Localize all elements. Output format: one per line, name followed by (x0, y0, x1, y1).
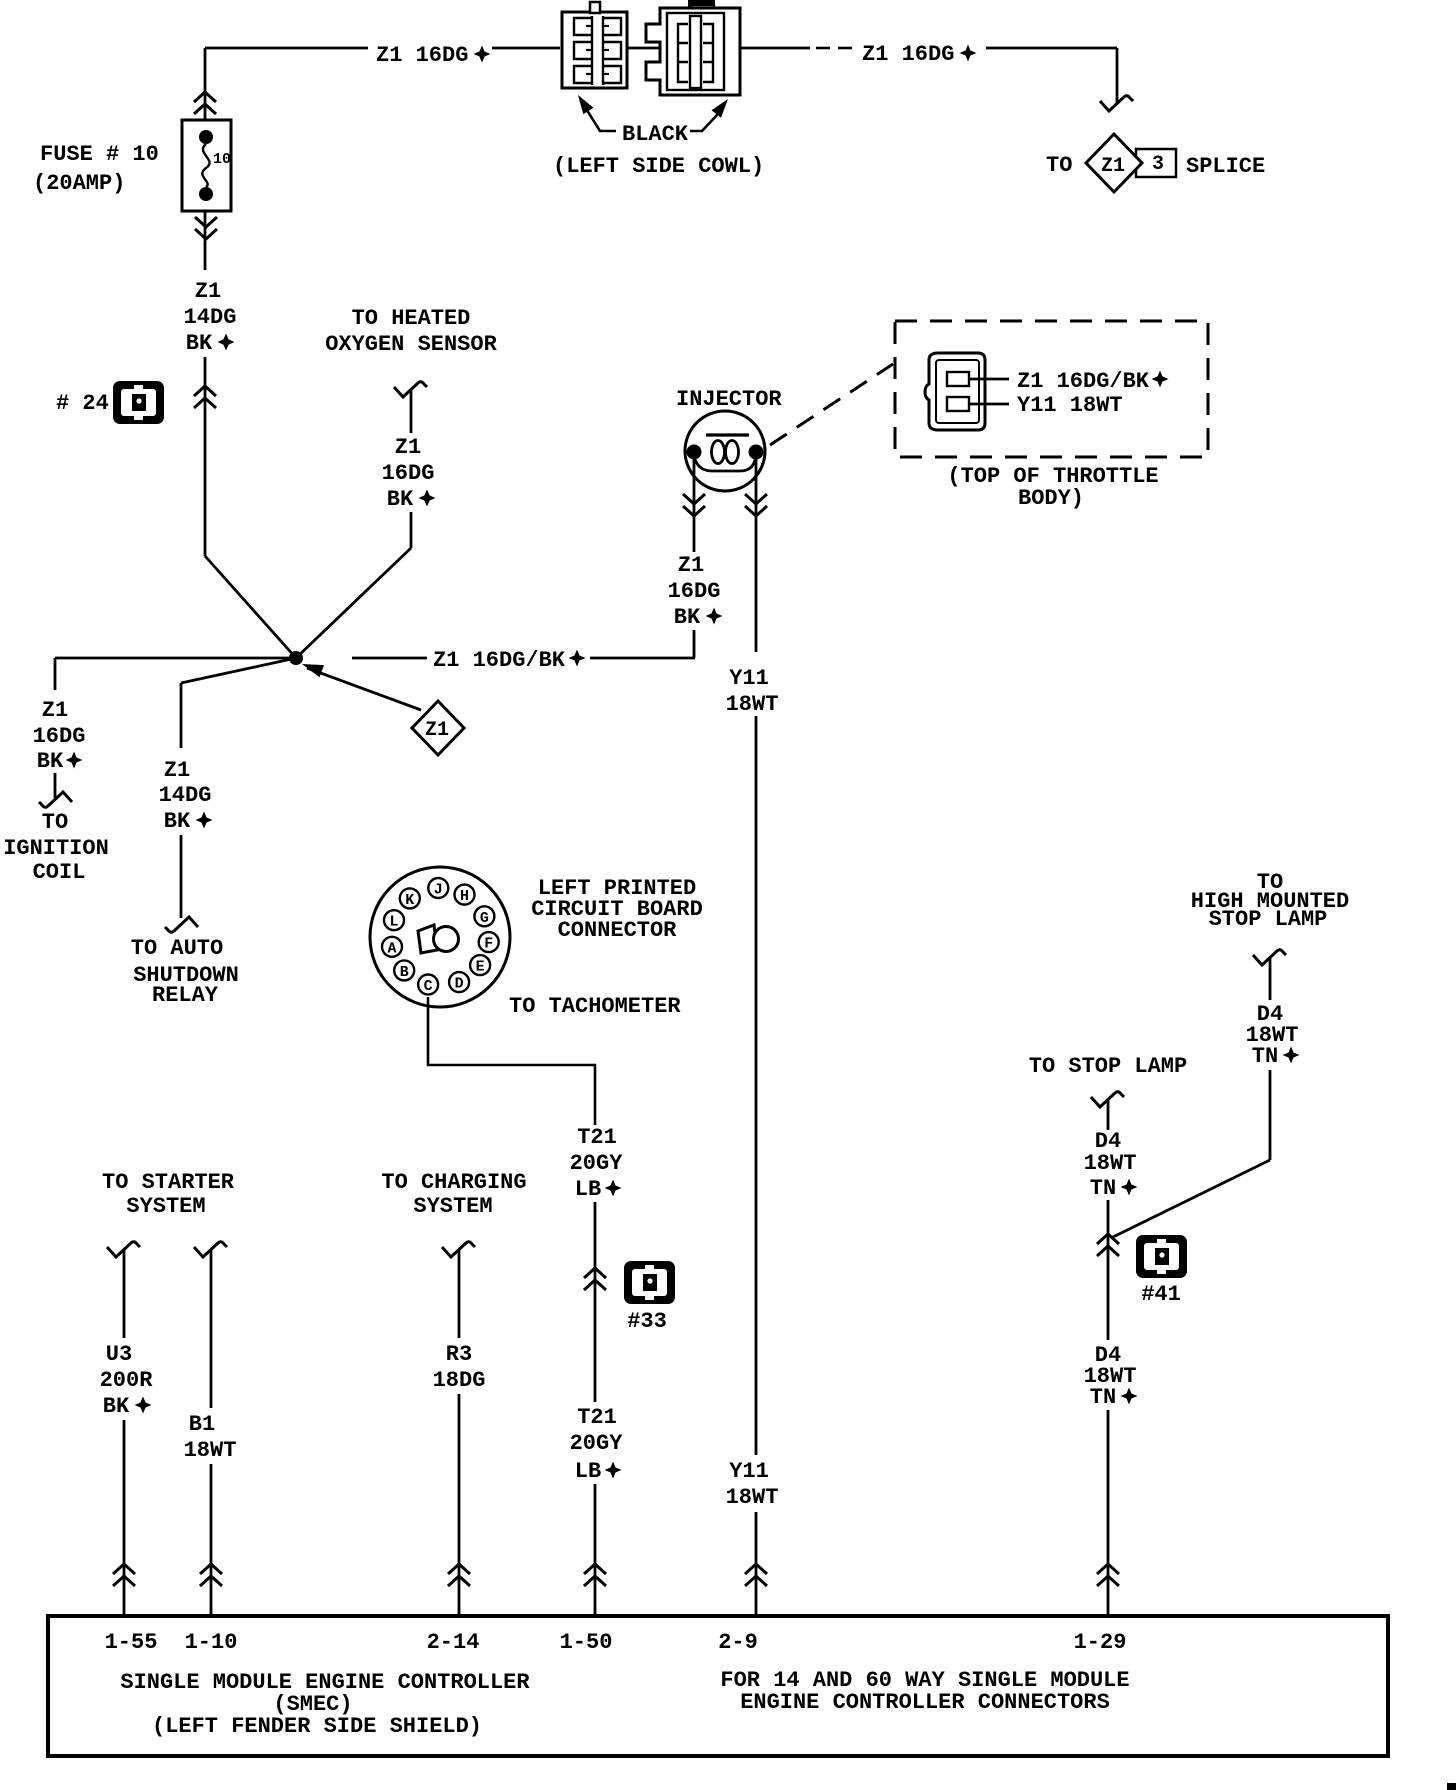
svg-text:TO AUTO: TO AUTO (131, 936, 223, 961)
svg-text:18DG: 18DG (433, 1368, 486, 1393)
svg-text:G: G (480, 910, 489, 927)
svg-text:TO HEATED: TO HEATED (352, 306, 471, 331)
svg-text:BODY): BODY) (1018, 486, 1084, 511)
svg-text:TO: TO (1046, 153, 1072, 178)
svg-text:18WT: 18WT (726, 1485, 779, 1510)
svg-text:A: A (388, 940, 397, 957)
svg-text:INJECTOR: INJECTOR (676, 387, 782, 412)
svg-text:TO: TO (42, 810, 68, 835)
svg-text:STOP LAMP: STOP LAMP (1209, 907, 1328, 932)
svg-text:B1: B1 (189, 1412, 215, 1437)
svg-text:ENGINE CONTROLLER CONNECTORS: ENGINE CONTROLLER CONNECTORS (740, 1690, 1110, 1715)
svg-text:BK: BK (164, 809, 191, 834)
svg-text:TN: TN (1252, 1044, 1278, 1069)
svg-text:18WT: 18WT (1084, 1151, 1137, 1176)
svg-text:RELAY: RELAY (152, 983, 219, 1008)
svg-text:Y11: Y11 (729, 666, 769, 691)
svg-text:1-55: 1-55 (105, 1630, 158, 1655)
svg-text:Z1: Z1 (1101, 155, 1125, 178)
svg-text:TO STARTER: TO STARTER (102, 1170, 235, 1195)
svg-text:Z1: Z1 (42, 698, 68, 723)
svg-text:SPLICE: SPLICE (1186, 154, 1265, 179)
svg-text:E: E (476, 959, 485, 976)
svg-text:16DG: 16DG (382, 461, 435, 486)
svg-text:18WT: 18WT (726, 692, 779, 717)
svg-text:C: C (424, 978, 433, 995)
svg-text:Z1: Z1 (195, 279, 221, 304)
svg-text:1-10: 1-10 (185, 1630, 238, 1655)
svg-text:1-50: 1-50 (560, 1630, 613, 1655)
svg-text:Z1: Z1 (678, 553, 704, 578)
svg-text:10: 10 (213, 151, 231, 168)
svg-text:LB: LB (575, 1459, 601, 1484)
svg-text:Z1 16DG: Z1 16DG (862, 42, 954, 67)
svg-text:200R: 200R (100, 1368, 154, 1393)
svg-text:BLACK: BLACK (622, 122, 689, 147)
svg-text:16DG: 16DG (668, 579, 721, 604)
svg-text:OXYGEN SENSOR: OXYGEN SENSOR (325, 332, 497, 357)
svg-text:SYSTEM: SYSTEM (413, 1194, 492, 1219)
svg-text:T21: T21 (577, 1405, 617, 1430)
svg-text:CONNECTOR: CONNECTOR (558, 918, 678, 943)
svg-text:#33: #33 (627, 1309, 667, 1334)
svg-text:1-29: 1-29 (1074, 1630, 1127, 1655)
svg-text:TN: TN (1090, 1385, 1116, 1410)
svg-text:R3: R3 (446, 1342, 472, 1367)
svg-text:U3: U3 (106, 1342, 132, 1367)
svg-text:20GY: 20GY (570, 1151, 624, 1176)
svg-text:Z1: Z1 (164, 758, 190, 783)
svg-text:Z1 16DG/BK: Z1 16DG/BK (433, 648, 566, 673)
svg-text:L: L (390, 914, 399, 931)
svg-text:H: H (460, 888, 469, 905)
svg-text:20GY: 20GY (570, 1431, 624, 1456)
svg-text:J: J (434, 882, 443, 899)
svg-text:3: 3 (1152, 153, 1164, 176)
svg-text:TO CHARGING: TO CHARGING (381, 1170, 526, 1195)
svg-text:(20AMP): (20AMP) (33, 171, 125, 196)
svg-text:LB: LB (575, 1177, 601, 1202)
svg-text:Z1: Z1 (425, 719, 449, 742)
svg-text:BK: BK (37, 749, 64, 774)
svg-text:K: K (405, 892, 414, 909)
svg-text:Z1 16DG: Z1 16DG (376, 43, 468, 68)
svg-text:TO STOP LAMP: TO STOP LAMP (1029, 1054, 1187, 1079)
svg-text:Z1 16DG/BK: Z1 16DG/BK (1017, 369, 1150, 394)
svg-text:(LEFT FENDER SIDE SHIELD): (LEFT FENDER SIDE SHIELD) (152, 1714, 482, 1739)
svg-text:2-14: 2-14 (427, 1630, 480, 1655)
svg-text:Z1: Z1 (395, 435, 421, 460)
svg-text:TN: TN (1090, 1176, 1116, 1201)
svg-text:IGNITION: IGNITION (3, 836, 109, 861)
svg-text:# 24: # 24 (56, 391, 109, 416)
svg-text:#41: #41 (1141, 1282, 1181, 1307)
svg-text:TO TACHOMETER: TO TACHOMETER (509, 994, 681, 1019)
svg-text:F: F (484, 936, 493, 953)
svg-text:SYSTEM: SYSTEM (126, 1194, 205, 1219)
svg-text:B: B (400, 964, 409, 981)
svg-text:T21: T21 (577, 1125, 617, 1150)
svg-text:BK: BK (387, 487, 414, 512)
svg-text:FUSE # 10: FUSE # 10 (40, 142, 159, 167)
svg-text:BK: BK (674, 605, 701, 630)
svg-text:D: D (455, 976, 464, 993)
svg-text:14DG: 14DG (184, 305, 237, 330)
svg-text:Y11 18WT: Y11 18WT (1017, 393, 1123, 418)
svg-text:2-9: 2-9 (718, 1630, 758, 1655)
svg-text:(LEFT SIDE COWL): (LEFT SIDE COWL) (553, 154, 764, 179)
svg-text:COIL: COIL (33, 860, 86, 885)
svg-text:16DG: 16DG (33, 724, 86, 749)
svg-text:BK: BK (103, 1394, 130, 1419)
svg-text:BK: BK (186, 331, 213, 356)
svg-text:18WT: 18WT (184, 1438, 237, 1463)
svg-text:Y11: Y11 (729, 1459, 769, 1484)
svg-text:14DG: 14DG (159, 783, 212, 808)
